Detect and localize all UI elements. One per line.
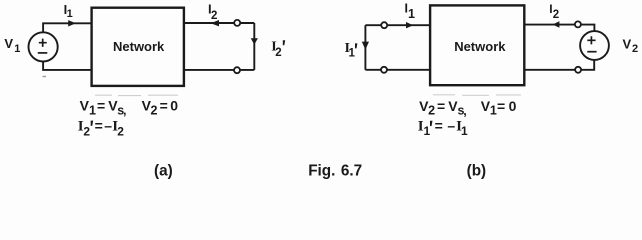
wire: port 2 short-circuit vertical (a) — [253, 23, 255, 70]
wire: box (a) to port 2 bottom terminal — [184, 69, 254, 71]
svg-text:–: – — [104, 117, 112, 133]
svg-text:2: 2 — [211, 10, 217, 22]
svg-text:=: = — [97, 98, 105, 114]
svg-text:1: 1 — [89, 103, 96, 117]
arrow I1 current direction (b) — [406, 22, 413, 28]
voltage source V1 — [28, 32, 57, 61]
svg-text:2: 2 — [275, 47, 281, 59]
wire: V1 bottom lead to network box (a) — [43, 62, 92, 70]
svg-text:1: 1 — [490, 104, 497, 118]
wire: port 1 short-circuit vertical (b) — [364, 25, 366, 70]
svg-text:6.7: 6.7 — [341, 163, 362, 180]
equation (b) line2: I1' = -I1 — [418, 117, 468, 138]
terminal node port2 top (b) — [575, 21, 581, 27]
wire: box (b) to V2 top lead — [524, 25, 594, 32]
svg-text:0: 0 — [170, 98, 178, 114]
svg-text:,: , — [463, 104, 466, 118]
equation (a) line2: I2' = -I2 — [78, 117, 125, 138]
svg-text:Fig.: Fig. — [308, 163, 335, 180]
svg-text:0: 0 — [509, 98, 517, 114]
svg-text:1: 1 — [67, 8, 73, 20]
arrow I1 current direction (a) — [68, 20, 76, 26]
wire: V2 bottom lead to box (b) — [524, 60, 594, 70]
svg-text:,: , — [123, 104, 126, 118]
svg-text:2: 2 — [553, 9, 559, 21]
wire: port 1 top terminal to box (b) — [365, 24, 430, 26]
svg-text:1: 1 — [14, 43, 20, 55]
terminal node port1 top (b) — [381, 22, 387, 28]
terminal node port2 bottom (a) — [234, 67, 240, 73]
svg-text:Network: Network — [454, 39, 506, 54]
svg-text:1: 1 — [408, 7, 415, 21]
wire: V1 top lead to network box (a) — [43, 23, 92, 32]
svg-text:2: 2 — [83, 124, 90, 138]
network box (b) — [430, 5, 524, 85]
svg-text:=: = — [435, 117, 443, 133]
svg-text:2: 2 — [117, 124, 124, 138]
svg-text:=: = — [497, 98, 505, 114]
svg-text:(b): (b) — [467, 163, 487, 180]
terminal node port2 bottom (b) — [575, 67, 581, 73]
svg-text:=: = — [437, 98, 445, 114]
arrow I2 current direction (b) — [553, 21, 560, 27]
svg-text:V: V — [4, 36, 13, 51]
svg-text:Network: Network — [113, 39, 165, 54]
arrow I2' current direction (a, down) — [251, 38, 258, 44]
arrow I1' current direction (b, down) — [362, 42, 369, 50]
wire: box (a) to port 2 top terminal — [184, 22, 254, 24]
terminal node port1 bottom (b) — [381, 67, 387, 73]
svg-text:2: 2 — [428, 104, 435, 118]
svg-text:1: 1 — [424, 124, 431, 138]
svg-text:=: = — [160, 98, 168, 114]
terminal node port2 top (a) — [234, 20, 240, 26]
equation (b) line1: V2 = Vs, V1 = 0 — [419, 98, 516, 118]
voltage source V2 — [580, 31, 609, 60]
svg-text:2: 2 — [151, 103, 158, 117]
svg-text:1: 1 — [349, 47, 356, 59]
svg-text:1: 1 — [461, 124, 468, 138]
arrow I2 current direction (a) — [211, 20, 219, 26]
svg-text:(a): (a) — [154, 163, 173, 180]
svg-text:–: – — [447, 117, 455, 133]
wire: port 1 bottom terminal to box (b) — [365, 69, 430, 71]
network box (a) — [92, 8, 184, 86]
svg-text:2: 2 — [632, 43, 638, 55]
svg-text:V: V — [623, 36, 632, 51]
scan artifact shadows (decorative) — [43, 77, 522, 96]
svg-text:=: = — [95, 117, 103, 133]
equation (a) line1: V1 = Vs, V2 = 0 — [80, 98, 179, 118]
